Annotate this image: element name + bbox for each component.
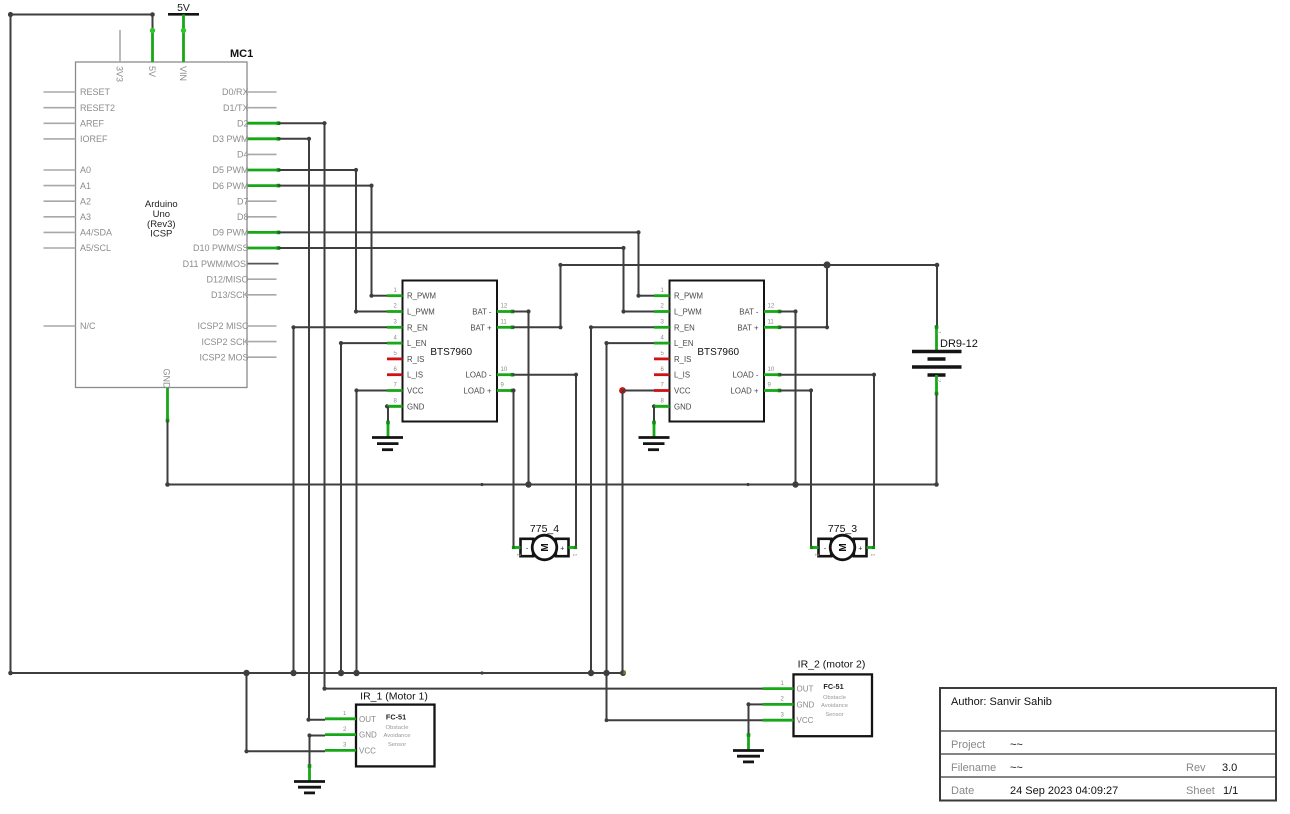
svg-text:M: M [540,543,551,551]
pin 1 OUT (IR sensor 1) [325,711,376,724]
pin D6 PWM (MC1 right) [213,181,281,191]
svg-text:D9 PWM: D9 PWM [213,228,249,238]
wire GND net: bottom bus to battery minus [168,482,939,487]
svg-text:11: 11 [768,320,775,326]
junction 5V bus / IR_1 VCC drop [243,670,249,676]
wire 5V net: top horizontal from left edge to MC1 5V pin [8,12,155,31]
wire GND net: MC1 GND down to bottom bus [165,421,170,487]
svg-text:VCC: VCC [359,746,376,755]
svg-text:5V: 5V [177,2,190,14]
wire net D9: MC1 D9 to driver2 R_PWM [279,230,655,298]
svg-text:ICSP2 SCK: ICSP2 SCK [201,337,248,347]
svg-text:A5/SCL: A5/SCL [80,243,111,253]
svg-text:R_PWM: R_PWM [674,292,703,301]
svg-text:LOAD -: LOAD - [733,371,759,380]
pin D9 PWM (MC1 right) [213,228,281,238]
pin A5/SCL (MC1 left) [44,243,112,253]
svg-text:D8: D8 [237,212,249,222]
pin 5 R_IS (BTS7960 #2) [654,351,691,364]
svg-text:A3: A3 [80,212,91,222]
pin ICSP2 MOS (MC1 right) [199,352,276,362]
svg-text:D3 PWM: D3 PWM [213,134,249,144]
svg-text:Obstacle: Obstacle [386,725,409,731]
pin D1/TX (MC1 right) [223,103,277,113]
svg-text:D1/TX: D1/TX [223,103,249,113]
wire driver2 R_EN to 5V bus [589,325,654,673]
svg-text:L_EN: L_EN [674,339,694,348]
IR sensor IR_2 (motor 2) FC-51 body [794,658,873,736]
wire driver2 LOAD+ to motor 775_3 left terminal [778,388,813,547]
svg-text:DR9-12: DR9-12 [940,338,978,350]
svg-text:FC-51: FC-51 [386,712,406,721]
svg-text:24 Sep 2023 04:09:27: 24 Sep 2023 04:09:27 [1010,785,1118,797]
svg-text:Avoidance: Avoidance [384,733,411,739]
pin N/C (MC1 left) [44,321,97,331]
pin D5 PWM (MC1 right) [213,165,281,175]
ground symbol (IR_2) [733,751,764,762]
wire driver2 BAT- to GND bus [778,309,798,484]
svg-text:M: M [838,543,849,551]
svg-text:R_EN: R_EN [674,323,695,332]
svg-text:RESET2: RESET2 [80,103,115,113]
svg-text:775_4: 775_4 [530,523,559,535]
svg-text:Rev: Rev [1186,762,1206,774]
junction 5V bus / driver2 R_EN [588,670,594,676]
svg-text:1: 1 [869,554,875,557]
svg-text:R_IS: R_IS [674,355,691,364]
svg-text:Sensor: Sensor [388,742,406,748]
pin 6 L_IS (BTS7960 #2) [654,367,690,380]
svg-text:3V3: 3V3 [115,66,125,82]
motor 775_3 [810,523,875,560]
svg-text:L_IS: L_IS [674,371,690,380]
wire net D6: MC1 D6 to driver1 R_PWM [279,184,388,298]
pin D8 (MC1 right) [237,212,277,222]
wire driver1 LOAD+ to motor 775_4 left terminal [511,388,516,547]
svg-text:D4: D4 [237,150,249,160]
pin RESET2 (MC1 left) [44,103,116,113]
IR sensor IR_1 (Motor 1) FC-51 body [356,691,435,767]
svg-text:A2: A2 [80,196,91,206]
pin A3 (MC1 left) [44,212,92,222]
wire 5V net: bottom 5V bus [11,671,624,674]
pin D13/SCK (MC1 right) [211,290,277,300]
pin 12 BAT- (BTS7960 #2) [739,304,779,317]
svg-text:A1: A1 [80,181,91,191]
wire 5V net: left edge vertical [8,15,13,676]
svg-text:GND: GND [797,700,815,709]
svg-text:A4/SDA: A4/SDA [80,228,112,238]
svg-text:2: 2 [515,554,521,557]
pin 3 VCC (IR sensor 2) [763,712,814,725]
wire driver2 LOAD- to motor 775_3 right terminal [778,373,876,548]
svg-text:BTS7960: BTS7960 [697,347,739,358]
title block [940,688,1276,801]
pin 1 R_PWM (BTS7960 #1) [387,288,436,301]
svg-text:MC1: MC1 [230,48,253,60]
pin 3 R_EN (BTS7960 #2) [654,320,695,333]
pin 4 L_EN (BTS7960 #1) [387,335,427,348]
svg-text:~~: ~~ [1010,739,1023,751]
pin 3 R_EN (BTS7960 #1) [387,320,428,333]
pin 5V (MC1 top) [147,28,157,77]
wire net D10: MC1 D10 to driver2 L_PWM [279,246,655,314]
svg-text:N/C: N/C [80,321,96,331]
svg-text:2: 2 [813,554,819,557]
svg-text:IR_1 (Motor 1): IR_1 (Motor 1) [360,691,428,703]
pin 2 GND (IR sensor 2) [763,697,815,710]
svg-text:10: 10 [501,367,508,373]
wire battery minus to GND bus [936,395,938,485]
svg-text:IR_2 (motor 2): IR_2 (motor 2) [798,658,866,670]
svg-text:VCC: VCC [407,387,424,396]
svg-text:Date: Date [951,785,974,797]
power symbol 5V [168,2,199,31]
svg-text:R_PWM: R_PWM [407,292,436,301]
svg-text:D0/RX: D0/RX [222,87,249,97]
svg-text:L_EN: L_EN [407,339,427,348]
ground symbol (driver2) [639,438,670,450]
wire BAT+ net horizontal to battery [561,263,940,326]
wire driver2 BAT+ riser [778,265,829,329]
svg-text:ICSP: ICSP [150,229,172,240]
svg-text:BAT -: BAT - [472,308,492,317]
svg-text:R_EN: R_EN [407,323,428,332]
svg-text:ICSP2 MISC: ICSP2 MISC [197,321,249,331]
svg-text:~~: ~~ [1010,762,1023,774]
svg-text:D12/MISO: D12/MISO [206,274,248,284]
ground symbol (driver1) [372,438,403,450]
svg-text:L_PWM: L_PWM [674,308,702,317]
motor 775_4 [512,523,577,560]
wire driver1 L_EN to 5V bus [339,341,387,673]
pin A4/SDA (MC1 left) [44,228,113,238]
svg-text:GND: GND [359,731,377,740]
pin 8 GND (BTS7960 #1) [387,399,425,412]
pin GND (MC1 bottom) [162,369,172,423]
wire driver2 VCC to 5V bus (red node) [619,387,654,673]
junction 5V bus / driver1 L_EN [338,670,344,676]
svg-text:GND: GND [674,402,692,411]
svg-text:ICSP2 MOS: ICSP2 MOS [199,352,248,362]
svg-text:D11 PWM/MOSI: D11 PWM/MOSI [183,259,249,269]
pin 10 LOAD- (BTS7960 #2) [733,367,780,380]
wire net D5: MC1 D5 to driver1 L_PWM [279,168,388,314]
wire net D3: MC1 D3 to IR_1 OUT [279,137,326,722]
pin D0/RX (MC1 right) [222,87,277,97]
pin D3 PWM (MC1 right) [213,134,281,144]
svg-text:D5 PWM: D5 PWM [213,165,249,175]
wire driver1 BAT- to GND bus [511,309,531,484]
pin D10 PWM/SS (MC1 right) [193,243,280,253]
wire driver1 BAT+ to battery plus net [511,263,563,330]
svg-text:LOAD +: LOAD + [731,387,759,396]
svg-text:RESET: RESET [80,87,111,97]
wire IR_2 GND to ground [746,702,762,750]
svg-text:12: 12 [501,304,508,310]
junction 5V bus / driver1 R_EN [290,670,296,676]
svg-text:BAT +: BAT + [470,323,492,332]
pin RESET (MC1 left) [44,87,111,97]
junction BAT+ net / driver2 BAT+ [823,261,830,268]
svg-text:3.0: 3.0 [1222,762,1237,774]
pin D7 (MC1 right) [237,196,277,206]
pin A1 (MC1 left) [44,181,92,191]
MCU MC1 Arduino Uno (Rev3) body [76,48,254,388]
svg-text:GND: GND [162,369,172,390]
svg-text:FC-51: FC-51 [823,682,843,691]
svg-text:OUT: OUT [797,685,814,694]
pin A0 (MC1 left) [44,165,92,175]
wire net D2: MC1 D2 to IR_2 OUT [279,121,763,691]
ground symbol (IR_1) [294,782,325,793]
H-bridge driver BTS7960 #2 body [670,281,765,422]
wire driver1 GND to ground [385,404,403,437]
pin D11 PWM/MOSI (MC1 right) [183,259,279,269]
pin ICSP2 MISC (MC1 right) [197,321,276,331]
pin 5 R_IS (BTS7960 #1) [387,351,424,364]
pin ICSP2 SCK (MC1 right) [201,337,276,347]
svg-text:1: 1 [571,554,577,557]
svg-text:OUT: OUT [359,715,376,724]
wire driver1 VCC to 5V bus [354,388,387,673]
svg-text:Author: Sanvir Sahib: Author: Sanvir Sahib [951,696,1052,708]
pin 9 LOAD+ (BTS7960 #1) [464,383,513,396]
wire IR_1 GND to ground [307,733,325,781]
svg-text:+: + [560,545,564,552]
svg-text:L_IS: L_IS [407,371,423,380]
pin 7 VCC (BTS7960 #1) [387,383,424,396]
pin 11 BAT+ (BTS7960 #2) [737,320,779,333]
pin 8 GND (BTS7960 #2) [654,399,692,412]
pin 3V3 (MC1 top) [115,30,125,82]
svg-text:VIN: VIN [178,66,188,81]
pin 3 VCC (IR sensor 1) [325,743,376,756]
pin 4 L_EN (BTS7960 #2) [654,335,694,348]
junction GND bus / driver1 BAT- [525,481,531,487]
svg-text:A0: A0 [80,165,91,175]
svg-text:Project: Project [951,739,985,751]
svg-text:D10 PWM/SS: D10 PWM/SS [193,243,249,253]
pin A2 (MC1 left) [44,196,92,206]
junction GND bus / driver2 BAT- [792,481,798,487]
svg-text:D7: D7 [237,196,249,206]
svg-text:D13/SCK: D13/SCK [211,290,249,300]
pin 2 L_PWM (BTS7960 #1) [387,304,435,317]
svg-text:D6 PWM: D6 PWM [213,181,249,191]
pin 1 OUT (IR sensor 2) [763,681,814,694]
svg-text:VCC: VCC [674,387,691,396]
svg-text:R_IS: R_IS [407,355,424,364]
svg-text:VCC: VCC [797,716,814,725]
pin D2 (MC1 right) [237,118,280,128]
svg-text:Obstacle: Obstacle [823,695,846,701]
H-bridge driver BTS7960 #1 body [403,281,498,422]
pin D4 (MC1 right) [237,150,277,160]
pin 2 L_PWM (BTS7960 #2) [654,304,702,317]
pin 12 BAT- (BTS7960 #1) [472,304,512,317]
junction 5V bus / driver1 VCC [353,670,359,676]
pin 6 L_IS (BTS7960 #1) [387,367,423,380]
battery DR9-12 [912,325,978,395]
svg-text:LOAD -: LOAD - [466,371,492,380]
svg-text:GND: GND [407,402,425,411]
svg-text:12: 12 [768,304,775,310]
pin 9 LOAD+ (BTS7960 #2) [731,383,780,396]
svg-text:+: + [858,545,862,552]
svg-text:Filename: Filename [951,762,996,774]
wire driver1 LOAD- to motor 775_4 right terminal [511,373,578,548]
junction 5V bus end / driver2 VCC [620,670,626,676]
wire driver2 GND to ground [652,404,670,437]
svg-text:L_PWM: L_PWM [407,308,435,317]
svg-text:10: 10 [768,367,775,373]
svg-text:IOREF: IOREF [80,134,108,144]
pin VIN (MC1 top) [178,28,188,81]
pin 1 R_PWM (BTS7960 #2) [654,288,703,301]
pin 2 GND (IR sensor 1) [325,727,377,740]
pin IOREF (MC1 left) [44,134,109,144]
svg-text:Avoidance: Avoidance [821,703,848,709]
wire driver1 R_EN to 5V bus [291,325,387,673]
pin AREF (MC1 left) [44,119,105,129]
svg-text:BAT +: BAT + [737,323,759,332]
wire 5V bus drop to IR_1 VCC [244,673,325,753]
svg-text:Sensor: Sensor [825,712,843,718]
pin 11 BAT+ (BTS7960 #1) [470,320,512,333]
svg-text:BTS7960: BTS7960 [430,347,472,358]
pin D12/MISO (MC1 right) [206,274,276,284]
svg-text:11: 11 [501,320,508,326]
svg-text:775_3: 775_3 [828,523,857,535]
svg-text:LOAD +: LOAD + [464,387,492,396]
wire driver2 L_EN to 5V bus and IR_2 VCC [604,341,762,722]
svg-text:Sheet: Sheet [1186,785,1215,797]
pin 10 LOAD- (BTS7960 #1) [466,367,513,380]
junction 5V bus / driver2 L_EN [603,670,609,676]
svg-text:5V: 5V [147,66,157,77]
svg-text:1/1: 1/1 [1223,785,1238,797]
svg-text:AREF: AREF [80,119,105,129]
svg-text:D2: D2 [237,118,249,128]
pin 7 VCC (BTS7960 #2) [654,383,691,396]
svg-text:BAT -: BAT - [739,308,759,317]
